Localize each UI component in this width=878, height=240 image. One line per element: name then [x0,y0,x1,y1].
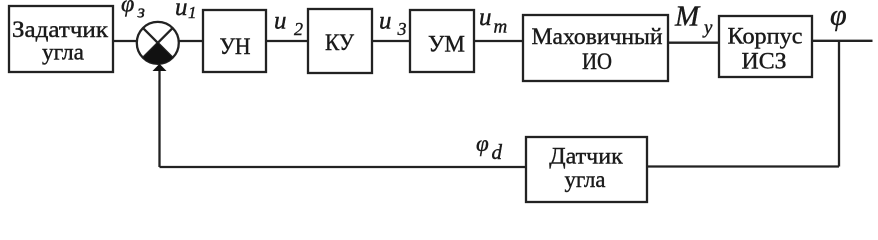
signal label u2 [274,8,303,40]
label УН [220,34,251,59]
signal label φd [476,131,503,164]
label УМ [428,32,465,57]
svg-text:3: 3 [397,19,407,39]
svg-text:ИСЗ: ИСЗ [742,49,787,74]
signal label um [479,4,507,38]
svg-text:u: u [479,4,492,31]
block Корпус ИСЗ [719,16,812,77]
svg-text:φ: φ [476,131,489,156]
svg-text:M: M [674,1,701,33]
wire feedback branch down [838,41,840,167]
wire [474,40,523,42]
signal label φз [121,0,145,23]
block Задатчик угла [9,6,113,72]
svg-text:УН: УН [220,34,251,59]
signal label φ output [830,0,847,32]
wire output [812,40,873,42]
svg-text:u: u [379,8,392,35]
wire [266,40,308,42]
svg-text:y: y [702,18,713,39]
block Маховичный ИО [523,15,668,81]
label Датчик угла [549,144,623,193]
arrowhead into junction [153,64,167,71]
svg-text:1: 1 [188,3,197,22]
svg-text:Задатчик: Задатчик [12,17,109,42]
signal label My [674,1,713,39]
block УМ [410,10,474,72]
svg-text:Корпус: Корпус [728,24,803,49]
svg-text:φ: φ [121,0,134,18]
wire [668,42,719,44]
svg-text:φ: φ [830,0,847,32]
svg-text:з: з [137,2,145,23]
svg-text:d: d [492,140,503,164]
svg-text:ИО: ИО [582,49,612,74]
svg-text:u: u [274,8,287,35]
label Маховичный ИО [532,24,663,74]
svg-text:2: 2 [294,19,303,39]
svg-text:Датчик: Датчик [549,144,623,169]
svg-text:УМ: УМ [428,32,465,57]
svg-text:Маховичный: Маховичный [532,24,663,49]
wire feedback up to junction [158,71,160,168]
wire [179,40,203,42]
wire feedback right segment [647,165,839,167]
svg-text:КУ: КУ [325,30,355,55]
svg-text:угла: угла [42,40,84,65]
svg-text:u: u [175,0,188,21]
signal label u3 [379,8,407,40]
summing junction [137,22,179,64]
block УН [203,10,266,72]
label КУ [325,30,355,55]
label Задатчик угла [12,17,109,65]
svg-text:m: m [494,17,508,38]
wire feedback left segment [160,166,527,168]
wire [113,40,137,42]
wire [372,40,410,42]
block Датчик угла [526,137,647,202]
label Корпус ИСЗ [728,24,803,74]
block КУ [308,9,372,73]
signal label u1 [175,0,197,22]
svg-text:угла: угла [565,167,606,192]
